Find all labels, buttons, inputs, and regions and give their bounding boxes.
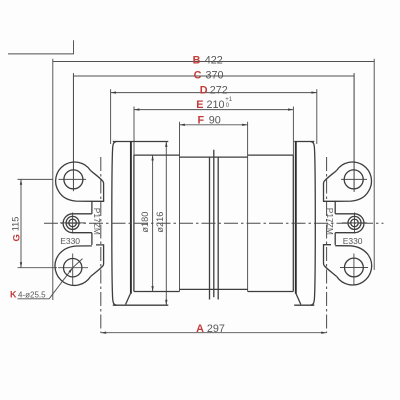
svg-text:90: 90: [209, 114, 221, 126]
svg-text:B: B: [193, 55, 201, 67]
svg-text:4-ø25.5: 4-ø25.5: [18, 290, 46, 299]
svg-text:ø180: ø180: [140, 212, 150, 233]
svg-text:297: 297: [207, 323, 225, 335]
svg-text:D: D: [200, 84, 208, 96]
svg-text:C: C: [194, 69, 202, 81]
svg-text:115: 115: [11, 217, 21, 232]
svg-text:A: A: [196, 323, 204, 335]
svg-text:P17ZM: P17ZM: [325, 208, 335, 235]
svg-text:K: K: [10, 290, 17, 300]
svg-text:+1: +1: [225, 97, 233, 103]
svg-text:E: E: [196, 99, 203, 111]
svg-text:ø216: ø216: [155, 212, 165, 233]
svg-text:210: 210: [207, 99, 225, 111]
svg-text:E330: E330: [343, 236, 363, 246]
svg-text:422: 422: [205, 55, 223, 67]
svg-text:F: F: [198, 114, 205, 126]
svg-text:E330: E330: [60, 236, 80, 246]
svg-text:370: 370: [206, 69, 224, 81]
svg-text:P17ZM: P17ZM: [92, 208, 102, 235]
svg-text:272: 272: [210, 84, 228, 96]
svg-text:G: G: [11, 234, 22, 241]
